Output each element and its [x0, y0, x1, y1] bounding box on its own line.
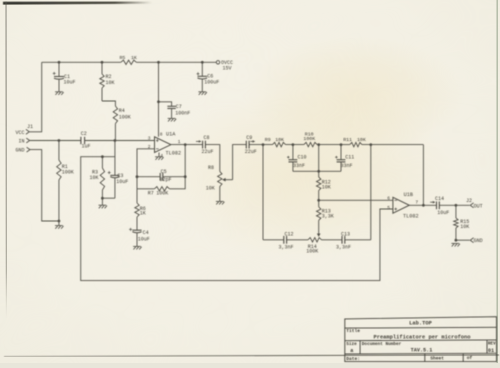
potentiometer R8 [218, 171, 222, 186]
ground C4 [133, 246, 142, 249]
svg-text:1K: 1K [131, 55, 137, 61]
capacitor C13 [342, 236, 345, 244]
svg-text:R4: R4 [119, 108, 125, 114]
page left border [6, 2, 7, 318]
node IN-R4-bias [114, 139, 117, 142]
capacitor C4 [132, 230, 141, 233]
svg-text:100K: 100K [303, 136, 315, 142]
svg-text:R9: R9 [265, 137, 271, 143]
title block divider size [359, 341, 361, 354]
wire wiper to C9 [233, 145, 247, 180]
svg-text:U1A: U1A [166, 132, 176, 138]
node A [262, 143, 265, 146]
svg-text:6: 6 [387, 195, 390, 201]
svg-text:100K: 100K [156, 191, 168, 197]
ground U1A [155, 157, 164, 160]
node bias-R3 [101, 155, 104, 158]
resistor R1 [58, 141, 60, 161]
resistor R13 [318, 200, 320, 207]
svg-text:Size: Size [346, 342, 357, 347]
svg-text:82pF: 82pF [160, 177, 172, 183]
capacitor C11 [340, 145, 342, 160]
node rail center [317, 170, 320, 173]
svg-text:10K: 10K [357, 137, 366, 143]
node fb-C5-left [136, 175, 139, 178]
svg-text:5: 5 [387, 205, 390, 211]
resistor R6 [136, 189, 138, 203]
resistor R7 [137, 188, 154, 190]
title block frame [345, 317, 497, 362]
svg-text:OUT: OUT [474, 203, 483, 209]
ground R3C3 [99, 205, 108, 208]
plus sign pin3 [156, 139, 159, 142]
wire R15 to GND port [456, 239, 470, 241]
node OUT-R15 [455, 204, 458, 207]
wiper R14 [317, 234, 321, 237]
wire bias gnd stub [101, 198, 103, 205]
wire fb to output [184, 145, 186, 177]
wire R2 to R4 [102, 101, 115, 106]
wire V+ to U1A pin8 [158, 62, 160, 137]
node rail-C6 [201, 61, 204, 64]
svg-text:R7: R7 [148, 191, 154, 197]
svg-text:C12: C12 [285, 232, 294, 238]
svg-text:C9: C9 [246, 135, 252, 141]
svg-text:GND: GND [15, 148, 24, 154]
resistor R2 [101, 62, 103, 74]
capacitor C3 [114, 157, 116, 176]
svg-text:C13: C13 [341, 232, 350, 238]
svg-text:C11: C11 [345, 154, 354, 160]
capacitor C2 [81, 137, 85, 144]
svg-text:33nF: 33nF [341, 163, 353, 169]
svg-text:3,3nF: 3,3nF [279, 244, 294, 250]
resistor R5 [121, 60, 137, 64]
capacitor C1 [58, 62, 60, 76]
node GND-R1 [58, 220, 61, 223]
node C7 tap [157, 100, 160, 103]
svg-text:R11: R11 [343, 137, 352, 143]
minus sign pin6 [394, 199, 397, 201]
svg-text:a: a [350, 348, 353, 354]
wire U1A pin2 [137, 149, 155, 177]
node B [292, 143, 295, 146]
resistor R12 [318, 171, 320, 177]
title block divider rev [486, 341, 488, 354]
wire C8 to pot [205, 145, 219, 172]
svg-text:J1: J1 [27, 124, 33, 130]
svg-text:TAV.5.1: TAV.5.1 [411, 348, 433, 354]
wire U1A output [171, 144, 203, 146]
svg-text:C10: C10 [298, 154, 307, 160]
wire to C7 [159, 102, 172, 107]
op-amp U1A [155, 137, 171, 153]
node out-fb [184, 143, 187, 146]
wire C10-C11 rail [293, 170, 341, 172]
resistor R9 [273, 142, 286, 146]
svg-text:C7: C7 [176, 104, 182, 110]
svg-text:VCC: VCC [15, 130, 24, 136]
svg-text:2: 2 [148, 144, 151, 150]
ground C1 [55, 92, 64, 95]
svg-text:3: 3 [148, 136, 151, 142]
minus sign pin2 [156, 148, 159, 150]
svg-text:Lab.TOP: Lab.TOP [409, 321, 432, 327]
svg-text:10K: 10K [89, 175, 98, 181]
wiper R8 [222, 178, 232, 182]
svg-text:100nF: 100nF [175, 111, 190, 117]
wire C14 to J2 [439, 204, 470, 206]
node out2-fb [422, 204, 425, 207]
wire R3-C3 join [102, 197, 115, 199]
ground J1 [55, 226, 64, 229]
page top border bar [3, 2, 152, 5]
capacitor C8 [203, 141, 206, 149]
svg-text:10uF: 10uF [116, 179, 128, 185]
node rail-C1 [58, 61, 61, 64]
svg-text:100uF: 100uF [204, 80, 219, 86]
capacitor C6 [201, 62, 203, 76]
wire GND branch [30, 150, 59, 221]
svg-text:Document Number: Document Number [362, 342, 402, 347]
svg-text:10uF: 10uF [437, 210, 449, 216]
wire to U1B pin6 [319, 199, 393, 201]
wire node A down [262, 145, 264, 240]
svg-text:22uF: 22uF [245, 149, 257, 155]
resistor R15 [455, 205, 457, 218]
terminal OVCC [216, 61, 219, 64]
svg-text:3,3K: 3,3K [322, 214, 334, 220]
capacitor C9 [246, 141, 249, 149]
svg-text:J2: J2 [466, 198, 472, 204]
potentiometer R14 [308, 238, 322, 242]
capacitor C10 [292, 145, 294, 160]
svg-text:C2: C2 [81, 131, 87, 137]
svg-text:C5: C5 [161, 169, 167, 175]
svg-text:REV: REV [488, 342, 496, 347]
svg-text:10K: 10K [106, 80, 115, 86]
node rail-R2 [101, 61, 104, 64]
ground C7 [168, 118, 177, 121]
title block row line 1 [345, 326, 497, 329]
resistor R4 [113, 106, 117, 124]
wire IN line [30, 140, 155, 142]
svg-text:1K: 1K [140, 211, 146, 217]
title block row line 3 [345, 352, 497, 355]
wire C9 to filter [249, 144, 272, 146]
svg-text:C14: C14 [435, 196, 444, 202]
node F [317, 199, 320, 202]
ground R8 [216, 201, 225, 204]
svg-text:10K: 10K [460, 224, 469, 230]
svg-text:33nF: 33nF [293, 163, 305, 169]
svg-text:15V: 15V [223, 66, 232, 72]
wire bias rail to U1B pin5 [81, 141, 393, 281]
node E [369, 143, 372, 146]
svg-text:Title: Title [346, 328, 360, 334]
title block divider sheet-of [462, 354, 464, 362]
page bottom border [4, 355, 499, 357]
svg-text:Sheet: Sheet [430, 355, 444, 361]
svg-text:100K: 100K [306, 249, 318, 255]
svg-text:1uF: 1uF [82, 143, 91, 149]
node C [317, 143, 320, 146]
svg-text:C4: C4 [143, 230, 149, 236]
plus sign pin5 [394, 208, 397, 211]
resistor R3 [101, 157, 103, 168]
title block divider date-sheet [424, 354, 426, 362]
op-amp U1B [393, 197, 409, 213]
node R3C3 bottom [101, 197, 104, 200]
node GND-R15 [455, 239, 458, 242]
wire node C down [318, 145, 320, 172]
node D [340, 143, 343, 146]
node IN-R1 [58, 139, 61, 142]
svg-text:8: 8 [160, 131, 163, 137]
wire feedback down to U1B out [422, 145, 424, 206]
svg-text:10uF: 10uF [138, 236, 150, 242]
svg-text:of: of [467, 355, 473, 361]
capacitor C7 [167, 106, 175, 108]
wire right filter up [370, 145, 372, 240]
capacitor C12 [263, 239, 284, 241]
wire VCC top rail [42, 61, 217, 63]
svg-text:R8: R8 [208, 165, 214, 171]
capacitor C5 [137, 176, 160, 178]
svg-text:100K: 100K [119, 115, 131, 121]
title block row line 2 [345, 339, 497, 342]
resistor R10 [304, 142, 317, 146]
svg-text:10K: 10K [275, 137, 284, 143]
capacitor C14 [437, 201, 440, 209]
svg-text:TL082: TL082 [166, 151, 182, 157]
ground C6 [198, 92, 207, 95]
node fb-C5-right [184, 175, 187, 178]
svg-text:Preamplificatore per microfono: Preamplificatore per microfono [373, 335, 470, 341]
svg-text:3,3nF: 3,3nF [336, 244, 351, 250]
wire VCC branch to J1 [30, 62, 42, 132]
svg-text:TL082: TL082 [403, 214, 419, 220]
svg-text:GND: GND [474, 238, 483, 244]
svg-text:Date:: Date: [346, 356, 360, 362]
resistor R11 [341, 144, 350, 146]
wire U1B output [409, 204, 436, 206]
svg-text:10K: 10K [322, 184, 331, 190]
svg-text:7: 7 [415, 200, 418, 206]
svg-text:22uF: 22uF [202, 149, 214, 155]
wire gnd stub [58, 221, 60, 226]
svg-text:10uF: 10uF [64, 79, 76, 85]
svg-text:C8: C8 [204, 135, 210, 141]
wire fb left lower [136, 177, 138, 189]
ground J2 [451, 243, 460, 246]
svg-text:U1B: U1B [404, 192, 413, 198]
page right border [496, 0, 498, 363]
wire U1A pin4 gnd [158, 153, 160, 157]
node rail-U1A [157, 61, 160, 64]
svg-text:IN: IN [18, 139, 24, 145]
svg-text:R5: R5 [120, 55, 126, 61]
svg-text:10K: 10K [206, 185, 215, 191]
svg-text:01: 01 [488, 348, 494, 354]
svg-text:100K: 100K [62, 170, 74, 176]
